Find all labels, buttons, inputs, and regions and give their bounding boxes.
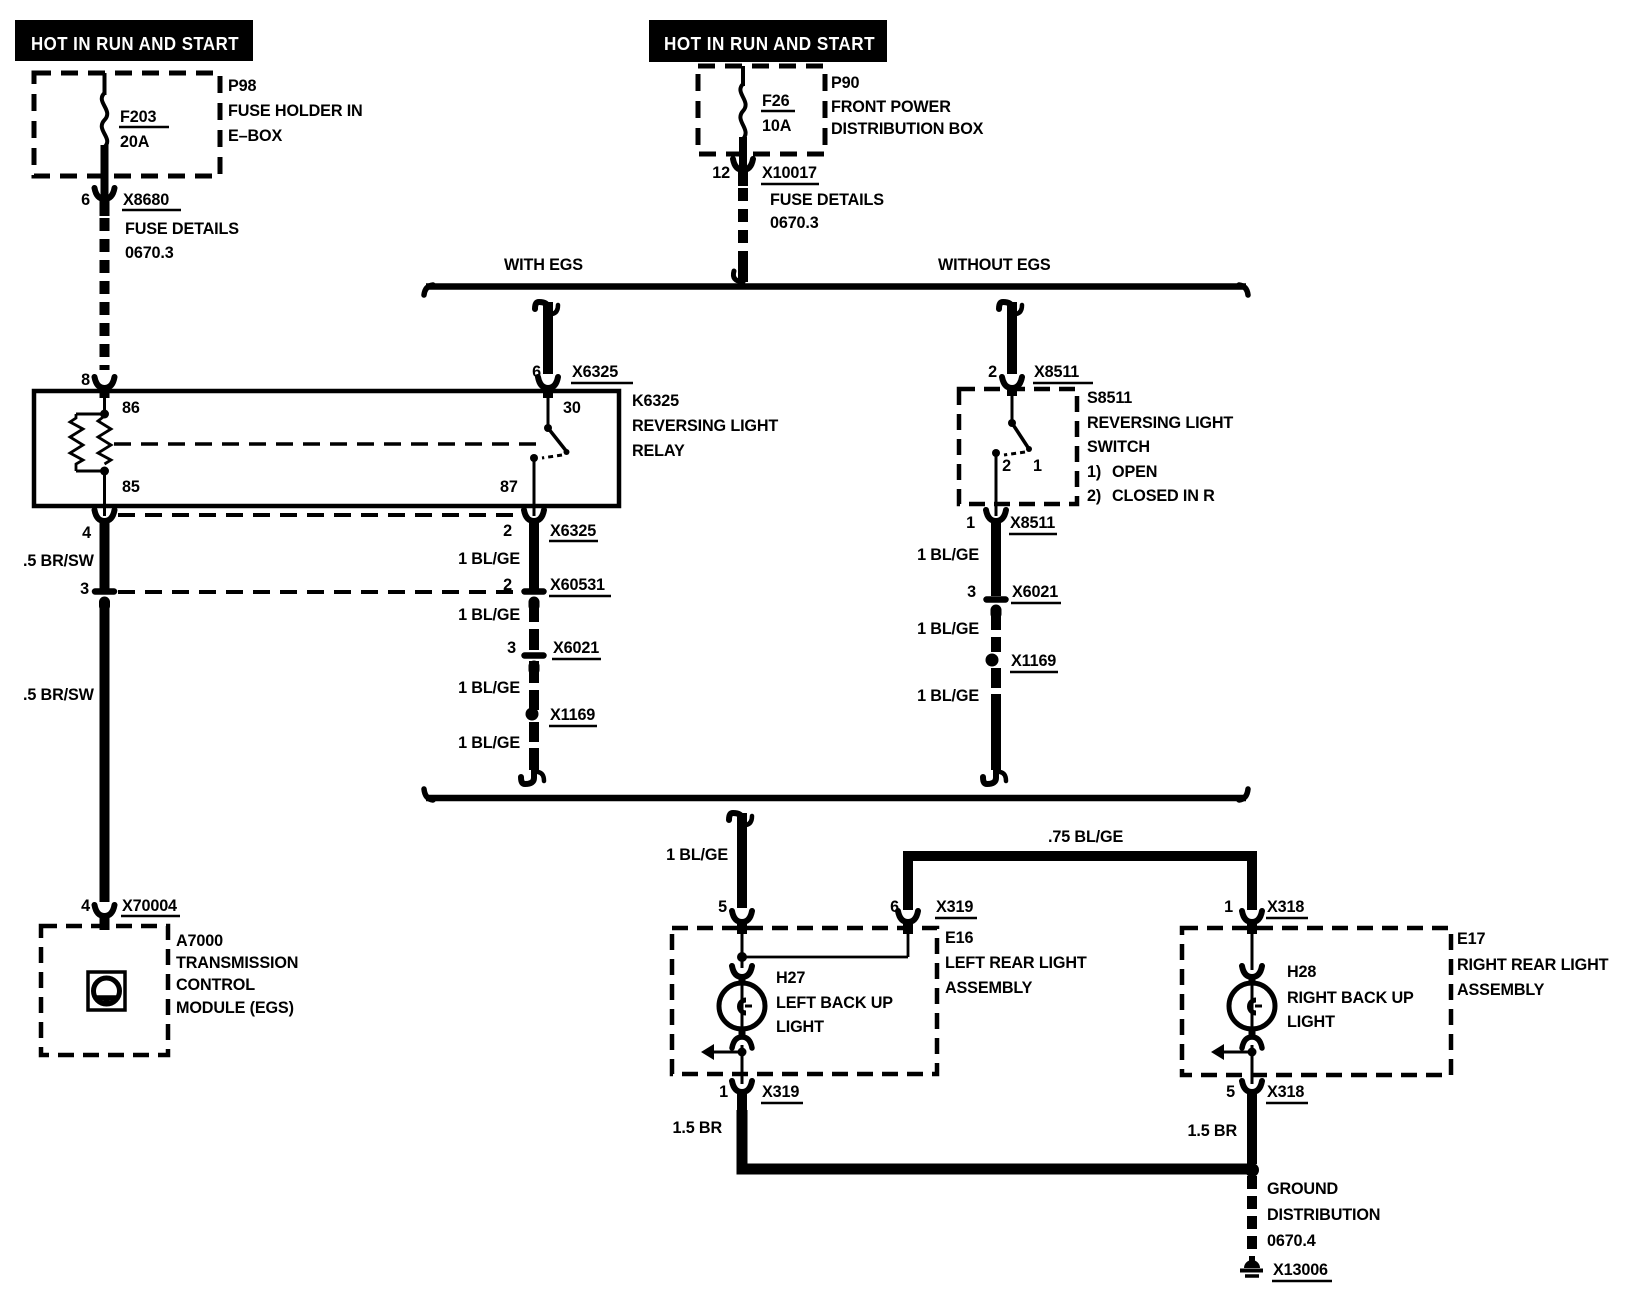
wire: [1247, 1176, 1257, 1254]
contact 2: [992, 449, 1000, 457]
svg-text:85: 85: [122, 478, 140, 496]
svg-text:REVERSING LIGHT: REVERSING LIGHT: [1087, 414, 1233, 432]
junction: [564, 449, 570, 455]
junction: [544, 424, 552, 432]
wire: [991, 668, 1001, 716]
wire: [991, 519, 1001, 596]
svg-text:2: 2: [988, 363, 997, 381]
svg-text:FUSE HOLDER IN: FUSE HOLDER IN: [228, 102, 363, 120]
svg-text:0670.3: 0670.3: [770, 214, 819, 232]
svg-text:OPEN: OPEN: [1112, 463, 1157, 481]
svg-text:1 BL/GE: 1 BL/GE: [458, 734, 520, 752]
svg-text:1 BL/GE: 1 BL/GE: [458, 606, 520, 624]
svg-text:GROUND: GROUND: [1267, 1180, 1339, 1198]
junction: [737, 952, 747, 962]
wire: [1247, 1090, 1257, 1164]
box: [672, 928, 937, 1074]
inline connector: [95, 588, 114, 595]
svg-text:X319: X319: [936, 898, 973, 916]
wire: [76, 413, 105, 416]
wire: [543, 386, 553, 398]
svg-text:K6325: K6325: [632, 392, 679, 410]
wire: [529, 661, 539, 710]
svg-text:F26: F26: [762, 92, 790, 110]
svg-text:A7000: A7000: [176, 932, 223, 950]
svg-text:.5 BR/SW: .5 BR/SW: [23, 686, 95, 704]
svg-text:X6021: X6021: [553, 639, 599, 657]
svg-text:20A: 20A: [120, 133, 150, 151]
junction: [986, 654, 999, 667]
svg-text:F203: F203: [120, 108, 156, 126]
wire: [100, 386, 110, 398]
svg-text:12: 12: [712, 164, 730, 182]
wire: [1007, 386, 1017, 396]
svg-text:X6325: X6325: [572, 363, 618, 381]
svg-text:10A: 10A: [762, 117, 792, 135]
svg-text:1.5 BR: 1.5 BR: [1188, 1122, 1238, 1140]
junction: [738, 1048, 747, 1057]
wire: [100, 519, 110, 590]
wire: [739, 137, 747, 167]
wire: [742, 1110, 1252, 1169]
svg-text:1.5 BR: 1.5 BR: [673, 1119, 723, 1137]
connector: [95, 905, 115, 916]
svg-text:87: 87: [500, 478, 518, 496]
svg-text:ASSEMBLY: ASSEMBLY: [1457, 981, 1545, 999]
svg-text:FUSE DETAILS: FUSE DETAILS: [125, 220, 239, 238]
wire: [529, 748, 539, 770]
wire: [739, 1028, 746, 1037]
wire: [529, 519, 539, 590]
wire: [712, 1051, 742, 1054]
wire: [907, 934, 910, 957]
wire: [426, 283, 1246, 290]
svg-text:X8680: X8680: [123, 191, 169, 209]
box: [34, 391, 619, 506]
svg-text:H28: H28: [1287, 963, 1316, 981]
connector: [732, 1081, 752, 1092]
wire: [739, 975, 746, 985]
wire: [738, 168, 748, 186]
svg-text:H27: H27: [776, 969, 805, 987]
svg-text:X70004: X70004: [122, 897, 177, 915]
contact 87: [530, 454, 538, 462]
wire: [426, 795, 1246, 802]
wire: [740, 84, 745, 139]
svg-text:3: 3: [507, 639, 516, 657]
connector X8511 pin 2: [1002, 377, 1022, 388]
wire: [529, 600, 539, 650]
wire: [741, 934, 744, 968]
wire: [1240, 1269, 1263, 1273]
connector: [524, 510, 544, 521]
svg-text:LIGHT: LIGHT: [1287, 1013, 1335, 1031]
wire: [1249, 1028, 1256, 1037]
svg-text:5: 5: [1226, 1083, 1235, 1101]
wire curl: [535, 302, 548, 317]
svg-text:CLOSED IN R: CLOSED IN R: [1112, 487, 1215, 505]
svg-text:1): 1): [1087, 463, 1101, 481]
svg-text:30: 30: [563, 399, 581, 417]
svg-text:2: 2: [503, 522, 512, 540]
connector pin 8 into relay: [95, 377, 115, 388]
wire: [995, 453, 998, 516]
connector: [95, 188, 115, 199]
svg-text:X6021: X6021: [1012, 583, 1058, 601]
svg-text:S8511: S8511: [1087, 389, 1132, 407]
wire: [533, 458, 536, 516]
connector: [1242, 966, 1262, 977]
svg-text:1 BL/GE: 1 BL/GE: [458, 679, 520, 697]
svg-text:REVERSING LIGHT: REVERSING LIGHT: [632, 417, 778, 435]
wire: [118, 513, 522, 517]
connector: [1242, 1037, 1262, 1048]
svg-text:4: 4: [81, 897, 90, 915]
svg-text:3: 3: [967, 583, 976, 601]
junction: [526, 708, 539, 721]
wire: [1245, 1274, 1259, 1278]
svg-text:2): 2): [1087, 487, 1101, 505]
svg-text:2: 2: [1002, 457, 1011, 475]
filament: [740, 1000, 747, 1013]
svg-text:X6325: X6325: [550, 522, 596, 540]
svg-text:X1169: X1169: [550, 706, 595, 724]
svg-text:FRONT POWER: FRONT POWER: [831, 98, 951, 116]
wire: [903, 920, 913, 934]
svg-text:RELAY: RELAY: [632, 442, 685, 460]
inline connector: [987, 596, 1006, 603]
svg-text:3: 3: [80, 580, 89, 598]
wire: [1011, 391, 1014, 423]
box: [698, 66, 825, 154]
banner HOT IN RUN AND START (middle): [649, 20, 887, 62]
bus2 left hook: [424, 789, 433, 800]
svg-text:1 BL/GE: 1 BL/GE: [458, 550, 520, 568]
svg-text:RIGHT BACK UP: RIGHT BACK UP: [1287, 989, 1414, 1007]
connector X319 pin 6: [898, 911, 918, 922]
svg-text:1: 1: [1033, 457, 1042, 475]
connector: [1242, 1081, 1262, 1092]
svg-text:1 BL/GE: 1 BL/GE: [917, 687, 979, 705]
wire: [1251, 934, 1254, 970]
wire: [529, 722, 539, 750]
junction: [1026, 446, 1032, 452]
wire: [908, 856, 1252, 910]
wire: [547, 391, 550, 428]
svg-text:1: 1: [719, 1083, 728, 1101]
wire: [737, 1090, 747, 1174]
coil winding: [98, 416, 111, 464]
wire: [741, 66, 745, 86]
box: [88, 972, 125, 1010]
svg-text:P90: P90: [831, 74, 859, 92]
wire: [741, 1045, 744, 1084]
svg-text:E17: E17: [1457, 930, 1485, 948]
wire: [991, 608, 1001, 652]
svg-text:.75 BL/GE: .75 BL/GE: [1048, 828, 1123, 846]
wire: [102, 93, 107, 147]
svg-text:X318: X318: [1267, 898, 1304, 916]
svg-text:LIGHT: LIGHT: [776, 1018, 824, 1036]
svg-text:X13006: X13006: [1273, 1261, 1328, 1279]
wire: [100, 914, 110, 930]
svg-text:CONTROL: CONTROL: [176, 976, 255, 994]
svg-text:E16: E16: [945, 929, 973, 947]
wire: [737, 920, 747, 934]
svg-text:4: 4: [82, 524, 91, 542]
wire: [1247, 920, 1257, 934]
wire curl: [999, 302, 1012, 317]
wire: [745, 1005, 752, 1008]
wire: [1251, 985, 1254, 1028]
wire: [737, 813, 747, 908]
bus2 right hook: [1239, 789, 1248, 800]
inline connector: [525, 588, 544, 595]
wire: [741, 985, 744, 1028]
svg-text:2: 2: [503, 576, 512, 594]
wire: [1007, 302, 1017, 374]
ground X13006: [1244, 1260, 1260, 1268]
wire: [114, 442, 543, 446]
curl into bus2: [521, 769, 534, 784]
svg-text:HOT IN RUN AND START: HOT IN RUN AND START: [31, 34, 239, 54]
svg-text:1 BL/GE: 1 BL/GE: [666, 846, 728, 864]
connector X319 pin 5: [732, 911, 752, 922]
wire: [100, 218, 110, 370]
filament: [1250, 1000, 1257, 1013]
svg-text:5: 5: [718, 898, 727, 916]
wire: [1004, 452, 1025, 455]
svg-text:X1169: X1169: [1011, 652, 1056, 670]
svg-text:ASSEMBLY: ASSEMBLY: [945, 979, 1033, 997]
wire curl: [729, 813, 742, 828]
wire: [543, 302, 553, 374]
wire: [742, 956, 908, 959]
wire: [101, 145, 109, 196]
wire: [1251, 1045, 1254, 1084]
wire: [1222, 1051, 1252, 1054]
switch arm: [1012, 423, 1029, 449]
box: [34, 73, 220, 176]
box: [959, 389, 1077, 504]
svg-text:TRANSMISSION: TRANSMISSION: [176, 954, 298, 972]
ground junction: [1245, 1163, 1259, 1177]
bus1 right hook: [1239, 285, 1248, 295]
svg-text:HOT IN RUN AND START: HOT IN RUN AND START: [664, 34, 875, 54]
svg-text:X318: X318: [1267, 1083, 1304, 1101]
junction: [1008, 419, 1016, 427]
svg-text:SWITCH: SWITCH: [1087, 438, 1150, 456]
connector X318 pin 1: [1242, 911, 1262, 922]
junction: [1248, 1048, 1257, 1057]
svg-text:.5 BR/SW: .5 BR/SW: [23, 552, 95, 570]
svg-text:X10017: X10017: [762, 164, 817, 182]
switch arm: [548, 428, 567, 452]
wire: [118, 590, 522, 594]
wire: [103, 73, 107, 95]
svg-text:DISTRIBUTION: DISTRIBUTION: [1267, 1206, 1380, 1224]
wire: [1249, 975, 1256, 985]
svg-text:6: 6: [81, 191, 90, 209]
node 86: [100, 410, 109, 419]
connector: [732, 966, 752, 977]
connector: [95, 510, 115, 521]
svg-text:0670.4: 0670.4: [1267, 1232, 1316, 1250]
wire: [1255, 1005, 1262, 1008]
svg-text:X8511: X8511: [1010, 514, 1055, 532]
box: [41, 926, 168, 1055]
svg-text:FUSE DETAILS: FUSE DETAILS: [770, 191, 884, 209]
box: [1182, 928, 1451, 1075]
svg-text:0670.3: 0670.3: [125, 244, 174, 262]
svg-text:1 BL/GE: 1 BL/GE: [917, 546, 979, 564]
svg-text:DISTRIBUTION BOX: DISTRIBUTION BOX: [831, 120, 984, 138]
svg-text:LEFT REAR LIGHT: LEFT REAR LIGHT: [945, 954, 1087, 972]
svg-text:X8511: X8511: [1034, 363, 1079, 381]
svg-text:6: 6: [890, 898, 899, 916]
connector: [986, 510, 1006, 521]
connector X6325 pin 6: [538, 377, 558, 388]
svg-text:1: 1: [1224, 898, 1233, 916]
svg-text:LEFT BACK UP: LEFT BACK UP: [776, 994, 893, 1012]
svg-text:1 BL/GE: 1 BL/GE: [917, 620, 979, 638]
arm dashes: [542, 455, 562, 458]
wire: [991, 714, 1001, 770]
svg-text:X319: X319: [762, 1083, 799, 1101]
wire: [100, 600, 110, 902]
wire: [76, 470, 105, 473]
wire: [738, 254, 748, 282]
svg-text:E–BOX: E–BOX: [228, 127, 282, 145]
connector: [733, 159, 753, 170]
svg-text:X60531: X60531: [550, 576, 605, 594]
wire: [103, 391, 106, 414]
svg-text:MODULE (EGS): MODULE (EGS): [176, 999, 294, 1017]
svg-text:1: 1: [966, 514, 975, 532]
svg-text:86: 86: [122, 399, 140, 417]
wire: [103, 471, 106, 516]
svg-text:P98: P98: [228, 77, 256, 95]
svg-text:8: 8: [81, 371, 90, 389]
node 85: [100, 467, 109, 476]
banner HOT IN RUN AND START (left): [15, 20, 253, 61]
svg-text:WITHOUT EGS: WITHOUT EGS: [938, 256, 1051, 274]
svg-text:WITH EGS: WITH EGS: [504, 256, 583, 274]
bus1 left hook: [424, 285, 433, 295]
inline connector: [525, 652, 544, 659]
wire: [100, 197, 110, 216]
svg-text:RIGHT REAR LIGHT: RIGHT REAR LIGHT: [1457, 956, 1609, 974]
curl into bus2: [983, 769, 996, 784]
connector: [732, 1037, 752, 1048]
wire: [738, 188, 748, 256]
